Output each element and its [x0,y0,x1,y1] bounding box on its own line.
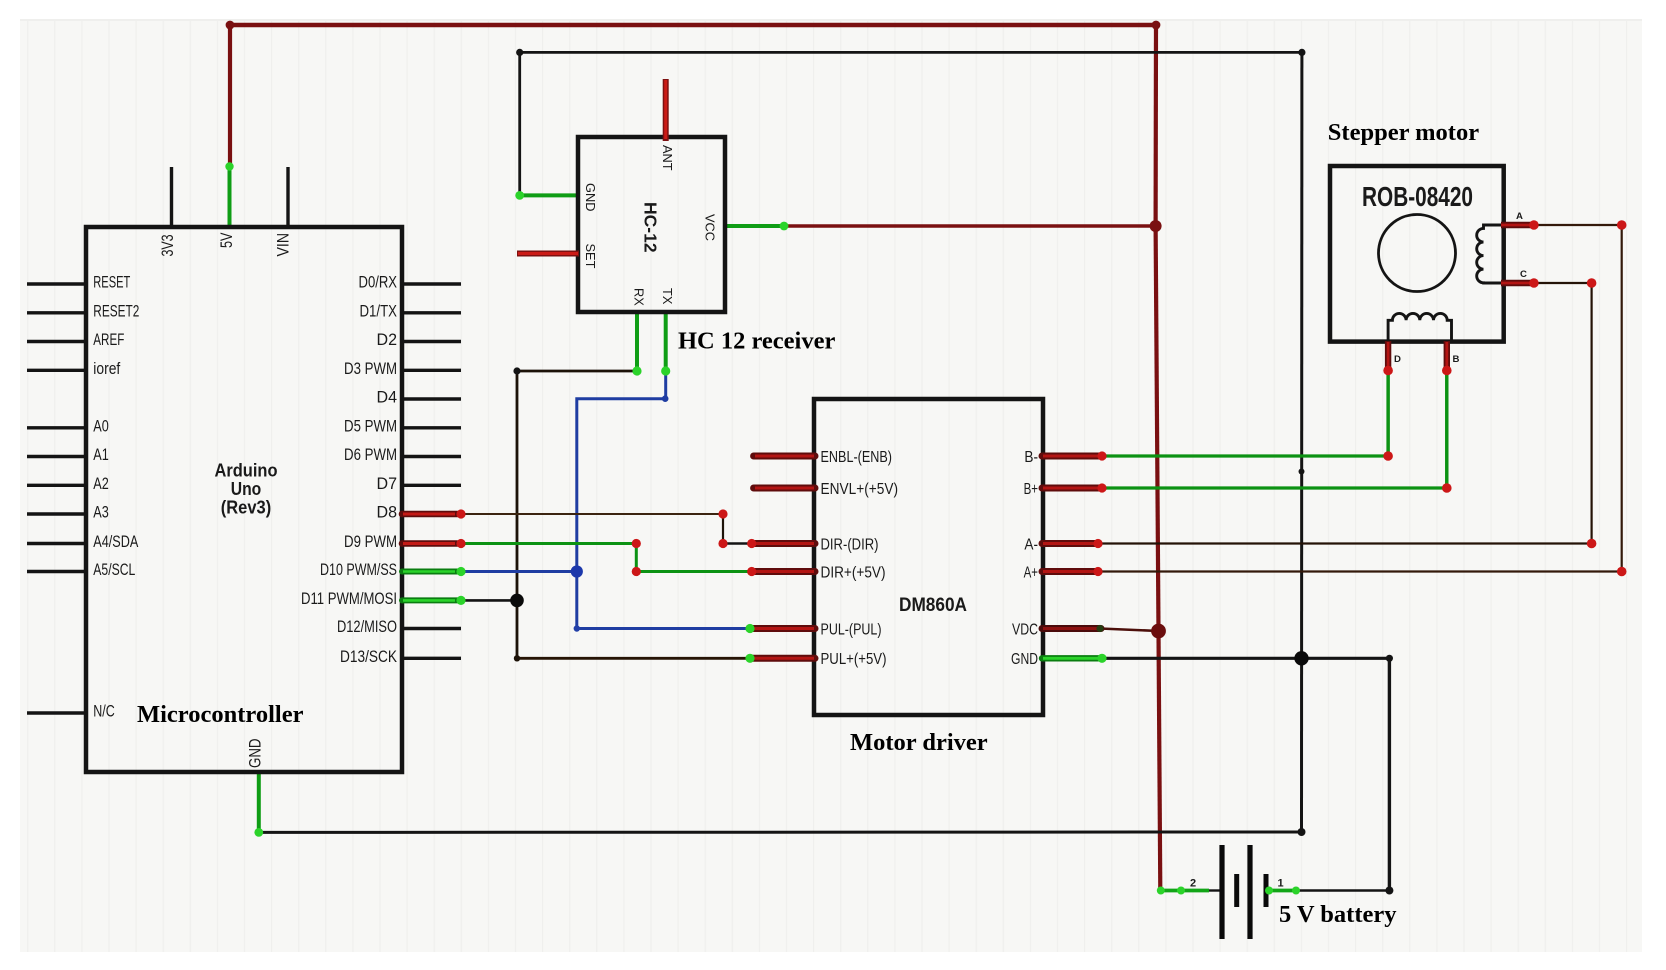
svg-text:D10 PWM/SS: D10 PWM/SS [320,561,397,579]
wire green: HC-12 RX pin lead [635,311,639,371]
title label HC 12 receiver [678,328,835,355]
net D8/DIR-: black segment into DIR- pin [723,542,749,544]
U3 pin stub DIR+(+5V) [752,568,815,575]
M1 right coil winding A-C [1477,225,1504,283]
svg-text:D7: D7 [377,475,398,493]
junction big dot black GND battery net [1294,651,1308,665]
svg-text:D1/TX: D1/TX [360,302,398,320]
net 5V: wire HC-12 VCC to vertical rail [784,224,1156,228]
svg-text:D3 PWM: D3 PWM [344,360,397,378]
net D8/DIR-: thin brown wire from D8 [461,513,723,515]
svg-text:VCC: VCC [703,214,718,241]
U1 pin stub D9 red [402,540,457,547]
U1 left pin stubs RESET..A5 N/C [27,284,86,713]
U1 top pin labels 3V3 5V VIN rotated [159,232,292,256]
net A+: dark brown wire DM860A A+ to stepper A [1098,225,1622,572]
svg-text:RX: RX [632,288,647,306]
svg-text:ENBL-(ENB): ENBL-(ENB) [821,449,893,466]
U3 pin stub GND green [1042,655,1103,661]
wire green: stepper pin B lead down [1445,371,1448,488]
svg-text:3V3: 3V3 [159,235,177,257]
driver U3 DM860A box [814,399,1043,715]
wire green: battery terminal 1 segment [1268,889,1296,893]
net VDC: dark red wire VDC pin to 5V rail junction [1100,629,1159,632]
net D11: short black wire from D11 dot to junction [461,599,517,602]
svg-text:D8: D8 [377,504,398,522]
svg-text:RESET2: RESET2 [93,302,139,320]
svg-text:(Rev3): (Rev3) [221,497,272,517]
svg-text:VDC: VDC [1012,621,1038,638]
svg-text:DIR+(+5V): DIR+(+5V) [821,564,886,581]
U1 pin stub D10 green [402,569,457,575]
net TX/PUL-: blue wire TX to PUL- with D10 branch [577,371,750,629]
U3 pin stub PUL+(+5V) [750,655,815,662]
svg-text:A: A [1516,211,1523,222]
svg-text:HC 12 receiver: HC 12 receiver [678,328,835,355]
svg-text:HC-12: HC-12 [641,202,661,253]
svg-text:D12/MISO: D12/MISO [337,618,397,636]
svg-text:SET: SET [583,244,598,269]
net B+: green wire DM860A B+ to stepper B [1102,371,1447,489]
net GND: black wire top horizontal HC-12 GND run [520,51,1302,54]
red wire-end dots [456,220,1626,576]
title label Stepper motor [1328,119,1479,146]
svg-text:2: 2 [1190,878,1196,890]
U2 part label HC-12 rotated [641,202,661,253]
svg-text:AREF: AREF [93,331,124,349]
U1 right pin labels [301,274,397,666]
M1 pin stub B red [1444,341,1450,371]
wire green: HC-12 GND pin lead [520,193,579,197]
green wire-end dots [225,162,1300,894]
svg-text:ENVL+(+5V): ENVL+(+5V) [821,481,899,498]
svg-text:Stepper motor: Stepper motor [1328,119,1479,146]
net GND: wire battery terminal 1 black segment [1296,889,1389,892]
svg-text:5V: 5V [218,232,236,248]
svg-text:D: D [1394,354,1401,365]
U3 pin stub A+ [1042,568,1099,575]
M1 pin stub D red [1385,341,1391,371]
U1 right pin stubs D0..D7 D12 D13 [402,284,461,658]
svg-text:DM860A: DM860A [899,594,967,616]
U3 pin stub A- [1042,540,1099,547]
svg-text:ROB-08420: ROB-08420 [1362,181,1473,212]
U1 pin stub VIN [286,167,289,227]
svg-text:A-: A- [1024,536,1038,553]
svg-text:Microcontroller: Microcontroller [137,701,304,728]
svg-text:VIN: VIN [275,233,293,257]
net 5V: wire right vertical segment to HC-12 VCC junction [1153,23,1158,226]
title label Microcontroller [137,701,304,728]
M1 part label ROB-08420 [1362,181,1473,212]
svg-text:A+: A+ [1024,564,1038,581]
svg-text:A0: A0 [93,417,109,435]
U3 pin stub VDC [1042,625,1101,632]
svg-text:Arduino: Arduino [215,461,278,481]
net D8/DIR-: dark vertical jog [722,514,724,544]
net GND: wire DM860A GND to battery vertical [1102,657,1389,660]
svg-text:GND: GND [246,738,264,768]
svg-text:A3: A3 [93,504,109,522]
net 5V: wire vertical drop to Arduino 5V pin [228,23,232,167]
net B-: green wire DM860A B- to stepper D [1102,371,1388,457]
wire green: stepper pin D lead down [1386,371,1389,456]
U2 pin labels rotated [583,145,718,306]
svg-text:C: C [1520,269,1527,280]
svg-text:GND: GND [1011,651,1038,668]
svg-text:D2: D2 [377,331,398,349]
U3 pin stub ENBL-(ENB) [754,453,815,460]
U3 part label DM860A [899,594,967,616]
net PUL+: brown-black horizontal to PUL+ pin [517,657,750,660]
svg-text:A5/SCL: A5/SCL [93,561,135,579]
BT1 terminal labels 2 and 1 [1190,878,1284,890]
U3 pin stub DIR-(DIR) [752,540,815,547]
svg-text:PUL+(+5V): PUL+(+5V) [821,651,887,668]
svg-text:B: B [1453,354,1460,365]
svg-text:DIR-(DIR): DIR-(DIR) [821,536,879,553]
svg-text:Uno: Uno [231,479,262,499]
svg-text:D4: D4 [377,389,398,407]
svg-text:A1: A1 [93,446,109,464]
battery BT1 plates [1222,845,1266,939]
U3 pin stub PUL-(PUL) [750,625,815,632]
svg-text:GND: GND [583,183,598,211]
svg-text:1: 1 [1278,878,1284,890]
wire green: Arduino GND pin stub [257,771,261,832]
corner dot blue [662,395,669,402]
junction dots dark red on 5V rail [226,21,1162,232]
U1 pin stub D8 red [402,511,457,518]
M1 pin labels A C D B [1394,211,1527,365]
M1 pin stub A red [1501,222,1534,228]
U3 left pin labels [821,449,899,668]
junction big dot VDC on 5V rail [1151,624,1166,639]
svg-text:B-: B- [1024,449,1038,466]
corner dot blue PUL- bend [574,625,580,631]
U3 pin stub B+ [1042,485,1103,492]
net D10: blue wire branch junction to D10 [461,570,577,573]
dark dot VDC stub end [1096,625,1103,632]
module U2 HC-12 box [578,137,725,312]
svg-text:RESET: RESET [93,274,130,292]
U1 part label Arduino Uno (Rev3) [215,461,278,518]
net GND: wire vertical at left down to HC-12 GND pin [518,52,521,195]
U2 pin stub SET red [517,251,579,257]
wire green: HC-12 VCC pin lead [724,224,784,228]
svg-text:B+: B+ [1024,481,1038,498]
svg-text:PUL-(PUL): PUL-(PUL) [821,621,882,638]
U3 right pin labels [1011,449,1038,668]
svg-text:D0/RX: D0/RX [359,274,398,292]
net D11/RX/PUL+: black wire RX down-left corner [517,371,637,658]
svg-text:TX: TX [660,288,675,305]
corner dot black PUL+ bend [514,655,520,661]
net GND: wire bottom horizontal run to Arduino GND [259,831,1302,834]
title label Motor driver [850,729,988,756]
M1 rotor circle [1379,215,1456,292]
wire green: battery terminal 2 segment [1160,889,1209,893]
M1 pin stub C red [1501,280,1534,286]
svg-text:5 V battery: 5 V battery [1279,901,1397,928]
net 5V: wire from Arduino 5V pin, top horizontal run [230,23,1156,27]
svg-text:ioref: ioref [93,360,120,378]
svg-text:A4/SDA: A4/SDA [93,533,138,551]
M1 bottom coil winding D-B [1388,313,1451,341]
svg-text:ANT: ANT [660,145,675,171]
U1 left pin labels [93,274,139,721]
svg-text:Motor driver: Motor driver [850,729,988,756]
svg-text:D13/SCK: D13/SCK [340,648,397,666]
wire green: Arduino 5V pin stub [228,167,232,229]
net GND: wire long right vertical [1300,52,1303,832]
U1 pin stub D11 green [402,597,457,603]
svg-text:D11 PWM/MOSI: D11 PWM/MOSI [301,590,397,608]
U3 pin stub B- [1042,453,1103,460]
motor M1 stepper box [1330,166,1504,342]
U2 pin stub ANT red [663,79,669,141]
svg-text:D6 PWM: D6 PWM [344,446,397,464]
svg-text:A2: A2 [93,475,109,493]
net 5V: wire vertical segment VCC junction to VDC junction [1156,226,1159,631]
net 5V: wire vertical segment VDC junction to battery terminal 2 [1159,631,1161,891]
net GND: wire vertical down to battery terminal 1 [1388,658,1391,890]
net D9/DIR+: green wire from D9 [461,544,749,572]
microcontroller U1 Arduino Uno box [86,227,402,772]
wire black: battery terminal 2 lead [1209,889,1220,891]
U1 pin stub 3V3 [170,167,173,227]
junction dots black GND net [513,49,1393,895]
svg-text:D9 PWM: D9 PWM [344,533,397,551]
title label 5 V battery [1279,901,1397,928]
net A-: dark wire DM860A A- to stepper C [1098,283,1592,544]
junction big dot blue TX net [571,565,583,577]
svg-text:D5 PWM: D5 PWM [344,417,397,435]
svg-text:N/C: N/C [93,703,115,721]
wire green: HC-12 TX pin lead [664,311,668,371]
U3 pin stub ENVL+(+5V) [754,485,815,492]
junction big dot black D11/RX/PUL+ net [510,594,524,608]
U1 bottom pin label GND rotated [246,738,264,768]
